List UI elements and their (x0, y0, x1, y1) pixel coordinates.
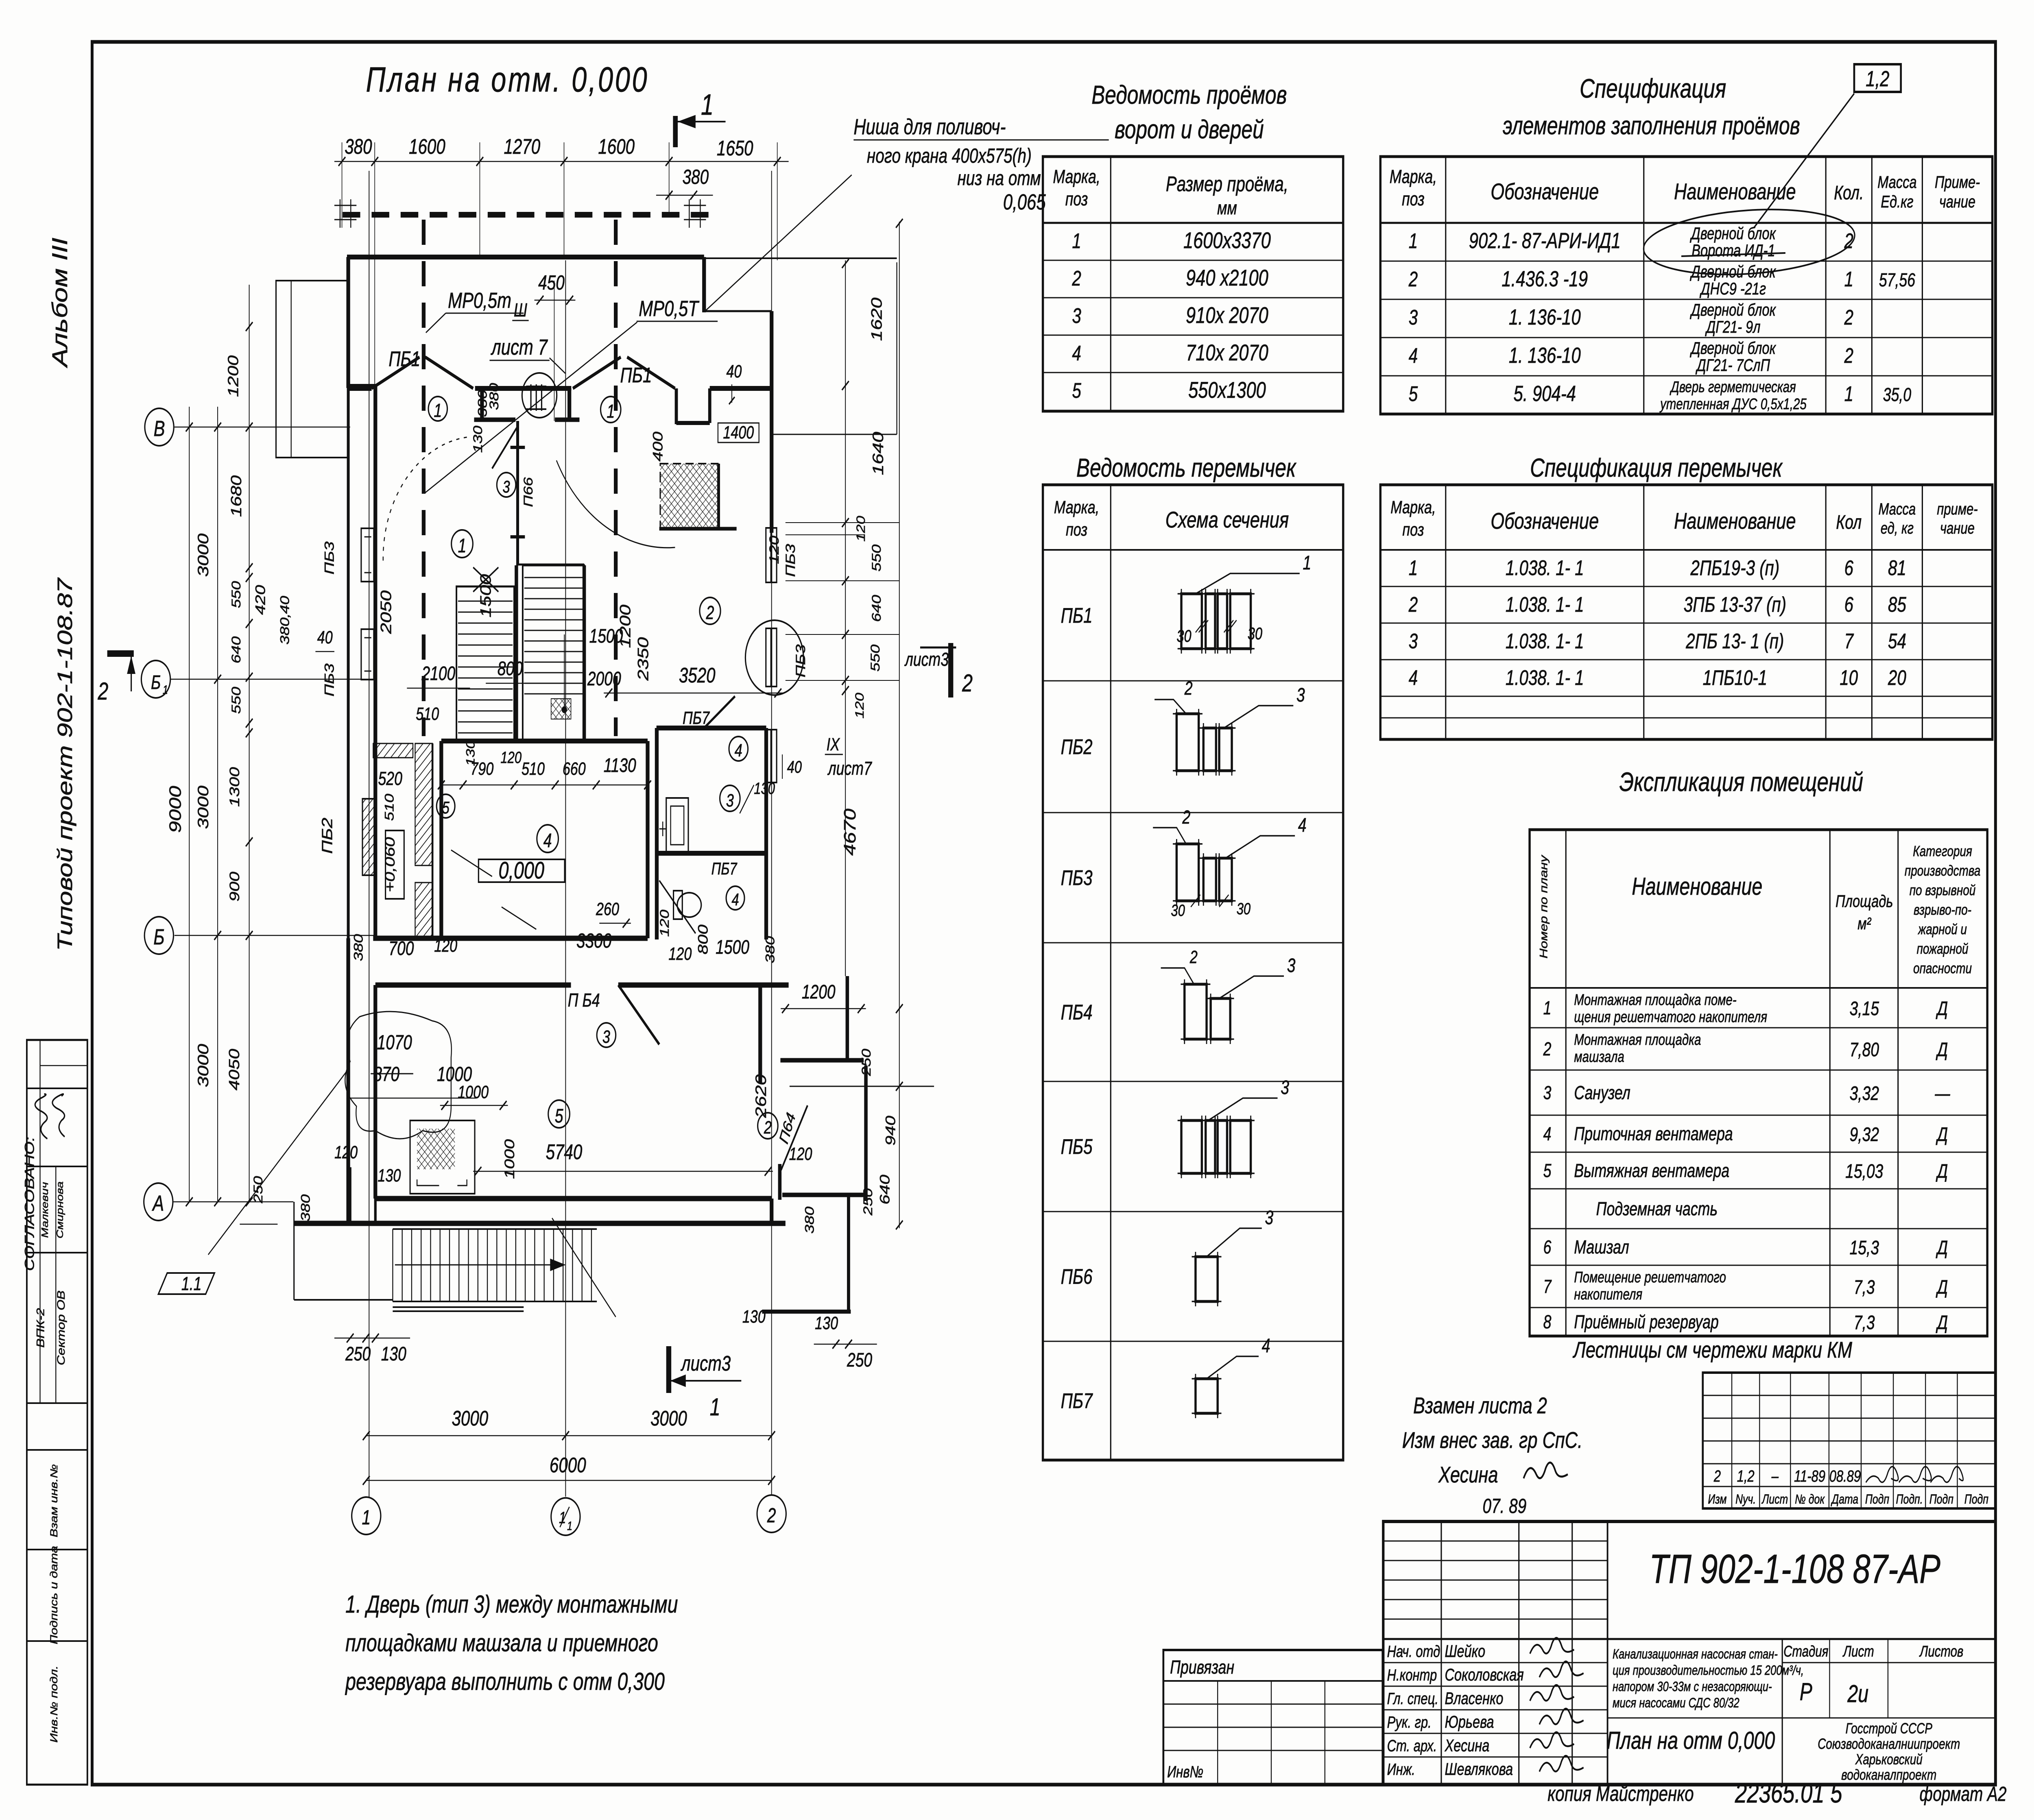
svg-text:Дверной блок: Дверной блок (1689, 338, 1776, 357)
pantry hatched wall vertical (415, 743, 432, 865)
axis Б1 circle (141, 660, 170, 698)
svg-text:МР0,5Т: МР0,5Т (639, 296, 700, 321)
svg-text:3: 3 (1281, 1077, 1289, 1099)
svg-text:380: 380 (299, 1194, 313, 1222)
window ПБ2 left wall (362, 799, 374, 875)
svg-text:2: 2 (98, 678, 109, 705)
svg-text:Марка,: Марка, (1053, 166, 1100, 187)
svg-text:5: 5 (442, 798, 450, 817)
gate wall segment left (348, 386, 371, 391)
svg-text:5: 5 (555, 1105, 563, 1127)
svg-text:лист7: лист7 (827, 758, 873, 779)
outer wall left main (373, 386, 378, 938)
svg-text:лист3: лист3 (904, 649, 949, 670)
svg-text:Альбом III: Альбом III (48, 238, 72, 368)
svg-text:2ПБ 13- 1 (п): 2ПБ 13- 1 (п) (1685, 629, 1784, 653)
svg-text:40: 40 (787, 757, 802, 776)
svg-text:Типовой проект 902-1-108.8: Типовой проект 902-1-108.87 (53, 577, 76, 951)
lintel schema ПБ4 (1185, 984, 1207, 1039)
lintel schema ПБ6 (1196, 1257, 1218, 1301)
svg-text:В: В (154, 416, 165, 441)
column mark left (339, 199, 340, 228)
svg-text:3: 3 (503, 477, 510, 496)
svg-text:поз: поз (1402, 189, 1425, 209)
svg-text:57,56: 57,56 (1879, 270, 1915, 290)
basin (666, 798, 688, 853)
svg-text:1.038. 1- 1: 1.038. 1- 1 (1506, 666, 1584, 689)
section mark 2 left (107, 650, 134, 657)
svg-text:по взрывной: по взрывной (1910, 882, 1976, 898)
svg-text:130: 130 (464, 740, 477, 766)
svg-text:приме-: приме- (1937, 500, 1977, 518)
svg-text:Госстрой СССР: Госстрой СССР (1846, 1720, 1933, 1737)
svg-text:Д: Д (1936, 1237, 1948, 1259)
svg-text:1620: 1620 (868, 297, 885, 341)
svg-text:250: 250 (859, 1049, 873, 1077)
svg-text:1: 1 (1543, 998, 1552, 1018)
exit threshold thin (790, 1086, 934, 1087)
svg-text:1: 1 (710, 1393, 720, 1421)
svg-text:2и: 2и (1847, 1680, 1869, 1707)
axis circle 1/1 (551, 1498, 580, 1535)
svg-text:120: 120 (854, 516, 868, 541)
svg-text:Размер проёма,: Размер проёма, (1166, 172, 1288, 196)
svg-text:взрыво-по-: взрыво-по- (1914, 902, 1971, 918)
svg-text:7: 7 (1844, 629, 1854, 653)
outer wall upper-right vertical (702, 257, 707, 312)
svg-text:Малкевич: Малкевич (39, 1182, 50, 1238)
svg-text:1: 1 (434, 400, 442, 421)
svg-text:1130: 1130 (604, 755, 636, 777)
svg-text:1: 1 (1303, 552, 1312, 574)
gate leaf left-1 (371, 357, 419, 388)
svg-text:1: 1 (701, 88, 714, 121)
svg-text:22365.01 5: 22365.01 5 (1735, 1778, 1842, 1809)
svg-text:Подп: Подп (1929, 1492, 1953, 1507)
svg-text:Наименование: Наименование (1674, 179, 1796, 205)
svg-text:ПБ3: ПБ3 (1061, 866, 1093, 889)
revision table grid (1703, 1373, 1996, 1508)
svg-text:2: 2 (1844, 305, 1853, 329)
circled 5 pantry (436, 794, 455, 818)
niche 1400 rect (718, 423, 759, 442)
svg-text:чание: чание (1939, 192, 1975, 211)
svg-text:510: 510 (522, 759, 545, 779)
column mark right (689, 199, 690, 228)
svg-text:Листов: Листов (1919, 1643, 1963, 1660)
svg-text:Дверной блок: Дверной блок (1689, 262, 1776, 281)
svg-text:4: 4 (1072, 341, 1081, 365)
svg-text:Санузел: Санузел (1574, 1082, 1630, 1103)
circled 5 room5 (548, 1100, 570, 1128)
stair treads right (524, 577, 583, 578)
svg-text:План на отм 0,000: План на отм 0,000 (1606, 1727, 1775, 1754)
room4 bottom wall (373, 936, 648, 941)
leader to crane circle (550, 358, 565, 373)
svg-text:2: 2 (1072, 266, 1081, 290)
room 2 circled label (700, 597, 720, 624)
svg-text:Соколовская: Соколовская (1445, 1665, 1523, 1684)
svg-text:250: 250 (847, 1349, 872, 1371)
outer wall top (347, 255, 704, 259)
svg-text:Союзводоканалниипроект: Союзводоканалниипроект (1818, 1736, 1960, 1752)
svg-text:3000: 3000 (452, 1406, 489, 1430)
svg-text:1: 1 (607, 401, 615, 422)
outer wall upper-left vertical (346, 257, 351, 388)
svg-text:1200: 1200 (225, 355, 241, 397)
door opening right bottom (769, 1199, 774, 1223)
dim line under cloud (347, 1098, 476, 1099)
svg-text:Д: Д (1936, 998, 1948, 1020)
svg-text:ДГ21- 9л: ДГ21- 9л (1705, 317, 1761, 336)
svg-text:120: 120 (853, 693, 866, 718)
toilet (677, 893, 701, 917)
svg-text:1: 1 (163, 683, 168, 697)
window ПБ3 right upper (766, 528, 771, 582)
svg-text:Приме-: Приме- (1935, 172, 1980, 192)
svg-text:Изм: Изм (1708, 1492, 1726, 1507)
axis 1 vertical (369, 171, 370, 1497)
svg-text:низ на отм: низ на отм (957, 167, 1041, 190)
svg-text:660: 660 (563, 759, 586, 779)
svg-text:накопителя: накопителя (1574, 1286, 1642, 1303)
svg-text:2350: 2350 (635, 637, 652, 681)
svg-text:6: 6 (1543, 1237, 1552, 1258)
section mark 1 top (672, 116, 679, 147)
svg-text:Nуч.: Nуч. (1735, 1492, 1756, 1507)
svg-text:5740: 5740 (546, 1140, 583, 1164)
svg-text:4: 4 (1262, 1335, 1270, 1357)
svg-text:940 х2100: 940 х2100 (1186, 265, 1268, 291)
svg-text:10: 10 (1840, 666, 1858, 689)
svg-text:1. 136-10: 1. 136-10 (1509, 305, 1581, 329)
svg-text:чание: чание (1940, 519, 1975, 537)
apron bottom (294, 1299, 393, 1301)
svg-text:ВПК-2: ВПК-2 (35, 1308, 46, 1348)
svg-text:550: 550 (229, 581, 243, 608)
svg-text:ед, кг: ед, кг (1881, 519, 1914, 537)
svg-text:жарной и: жарной и (1917, 921, 1967, 937)
svg-text:утепленная ДУС 0,5х1,25: утепленная ДУС 0,5х1,25 (1659, 395, 1807, 412)
svg-text:5. 904-4: 5. 904-4 (1514, 381, 1576, 406)
axis А circle (144, 1183, 173, 1221)
svg-text:ного крана 400х575(h): ного крана 400х575(h) (867, 145, 1032, 167)
svg-text:1. 136-10: 1. 136-10 (1509, 343, 1581, 368)
svg-text:Д: Д (1936, 1161, 1948, 1183)
svg-text:Приёмный резервуар: Приёмный резервуар (1574, 1312, 1718, 1332)
svg-text:ПБ3: ПБ3 (322, 541, 336, 574)
svg-text:0,000: 0,000 (499, 857, 545, 883)
table Спецификация перемычек grid (1380, 485, 1992, 739)
left dim chain inner (249, 285, 250, 1202)
lintel schema ПБ2 (1176, 714, 1198, 771)
svg-text:3: 3 (1296, 684, 1305, 706)
axis 2 vertical (771, 171, 772, 1495)
svg-text:1500: 1500 (716, 937, 749, 959)
axis В circle (145, 408, 174, 446)
lintel schema ПБ1 (1181, 594, 1202, 649)
pantry inner wall (431, 743, 434, 937)
svg-text:формат А2: формат А2 (1920, 1783, 2007, 1805)
svg-text:1000: 1000 (437, 1063, 472, 1085)
svg-text:1650: 1650 (717, 136, 753, 160)
svg-text:Взамен листа 2: Взамен листа 2 (1413, 1393, 1547, 1419)
exit pit wall vertical (847, 1196, 851, 1312)
svg-text:3: 3 (1287, 955, 1296, 977)
svg-text:Ед.кг: Ед.кг (1881, 192, 1913, 211)
svg-text:1: 1 (1409, 556, 1418, 580)
axis room label 1 left (428, 397, 447, 421)
room5 right wall (758, 985, 763, 1083)
vestibule sill left (474, 418, 515, 422)
svg-text:3: 3 (1409, 305, 1418, 329)
extension line 450 (554, 281, 554, 421)
svg-text:Ведомость перемычек: Ведомость перемычек (1076, 453, 1296, 483)
exit stub wall left (777, 1164, 782, 1200)
svg-text:Сектор ОВ: Сектор ОВ (55, 1290, 67, 1365)
svg-text:4: 4 (543, 830, 552, 852)
svg-text:550х1300: 550х1300 (1188, 377, 1266, 403)
dim row above room4 (441, 785, 648, 786)
svg-text:ПБ7: ПБ7 (683, 708, 710, 728)
svg-text:2: 2 (767, 1504, 776, 1527)
room5 bottom wall (374, 1196, 771, 1201)
svg-text:3: 3 (1265, 1207, 1273, 1229)
svg-text:№ док: № док (1795, 1492, 1825, 1507)
svg-text:щения решетчатого накопителя: щения решетчатого накопителя (1574, 1008, 1767, 1025)
monorail beam dashed right (613, 220, 618, 736)
svg-text:1680: 1680 (228, 475, 244, 517)
svg-text:40: 40 (317, 628, 333, 647)
svg-text:2100: 2100 (421, 663, 456, 685)
svg-text:2: 2 (1184, 678, 1193, 699)
svg-text:IX: IX (827, 735, 840, 754)
door leaf ПБ7 top (704, 696, 735, 728)
svg-text:3: 3 (726, 791, 734, 811)
gate wall right segment (710, 386, 772, 391)
svg-text:—: — (1935, 1083, 1951, 1105)
svg-text:30: 30 (1237, 900, 1251, 918)
window ПБ3 upper (361, 528, 374, 582)
svg-text:380: 380 (763, 936, 777, 963)
axis room label 1 right (600, 397, 621, 423)
section mark лист3 bottom (666, 1346, 672, 1393)
svg-text:550: 550 (869, 545, 884, 572)
right dim chain outer (899, 222, 900, 1228)
terrace top thin line (704, 257, 897, 259)
svg-text:120: 120 (766, 536, 781, 564)
svg-text:30: 30 (1248, 624, 1262, 643)
svg-text:Гл. спец.: Гл. спец. (1387, 1689, 1438, 1708)
bottom dim 3000 3000 (366, 1435, 771, 1436)
svg-text:ПБ2: ПБ2 (1061, 735, 1093, 759)
level mark 0,000 (478, 859, 565, 882)
svg-text:0,065: 0,065 (1003, 190, 1046, 214)
window right double (766, 730, 771, 782)
svg-text:2: 2 (764, 1118, 772, 1138)
niche wall bottom (659, 527, 737, 531)
stair up arrow left (473, 567, 498, 592)
svg-text:1: 1 (458, 535, 467, 557)
svg-text:ПБ5: ПБ5 (1061, 1135, 1093, 1158)
svg-text:Инв№: Инв№ (1167, 1763, 1203, 1781)
axis room label 1 lower (452, 530, 473, 558)
lower outer wall (294, 1221, 786, 1226)
wall step at left (347, 384, 377, 389)
exit corridor wall upper (845, 976, 849, 1060)
svg-text:Обозначение: Обозначение (1491, 508, 1599, 534)
svg-text:1.038. 1- 1: 1.038. 1- 1 (1506, 629, 1584, 653)
svg-text:1,2: 1,2 (1737, 1467, 1755, 1485)
svg-text:Б: Б (151, 672, 161, 694)
svg-text:2050: 2050 (378, 590, 395, 634)
svg-text:420: 420 (253, 585, 268, 615)
room divider stub (514, 565, 519, 741)
wc door diagonal (659, 881, 696, 933)
svg-text:7,3: 7,3 (1854, 1312, 1875, 1334)
svg-text:3: 3 (602, 1027, 610, 1047)
svg-text:2000: 2000 (587, 668, 621, 690)
room4 left wall (439, 741, 444, 938)
window ПБ3 lower (361, 629, 374, 680)
svg-text:2620: 2620 (753, 1074, 770, 1118)
svg-text:40: 40 (726, 362, 742, 381)
svg-text:85: 85 (1888, 593, 1906, 616)
stair shaft top wall (516, 564, 584, 566)
svg-text:130: 130 (742, 1307, 766, 1327)
circled 3 door (597, 1023, 616, 1047)
door arc room1 (383, 437, 467, 565)
svg-text:130: 130 (381, 1343, 406, 1365)
dim extension lines top (342, 142, 343, 228)
svg-text:9,32: 9,32 (1850, 1124, 1879, 1146)
svg-text:400: 400 (650, 432, 666, 462)
svg-text:опасности: опасности (1913, 960, 1972, 976)
svg-text:20: 20 (1888, 666, 1906, 689)
left apron wall (293, 1202, 295, 1300)
svg-text:Наименование: Наименование (1632, 873, 1762, 900)
axis В line (175, 427, 350, 428)
svg-text:910х 2070: 910х 2070 (1186, 303, 1268, 328)
left dim chain middle 3000s (217, 407, 218, 1202)
svg-text:1000: 1000 (502, 1139, 517, 1179)
door leaf П66 (492, 428, 517, 469)
svg-text:2ПБ19-3 (п): 2ПБ19-3 (п) (1690, 556, 1780, 580)
circled 4 hall (537, 825, 559, 852)
svg-text:Нач. отд: Нач. отд (1387, 1642, 1440, 1661)
svg-text:130: 130 (471, 426, 485, 453)
svg-text:Спецификация перемычек: Спецификация перемычек (1530, 453, 1783, 483)
svg-text:Обозначение: Обозначение (1491, 179, 1599, 205)
svg-text:2: 2 (1543, 1039, 1552, 1059)
svg-text:резервуара выполнить с отм 0: резервуара выполнить с отм 0,300 (345, 1668, 665, 1695)
svg-text:+0,060: +0,060 (382, 837, 398, 892)
svg-text:120: 120 (789, 1144, 812, 1164)
exit bottom wall (782, 1193, 867, 1197)
door leaf П64 exit (781, 1105, 807, 1170)
svg-text:СОГЛАСОВАНО:: СОГЛАСОВАНО: (22, 1137, 37, 1271)
axis 1/1 vertical (565, 260, 566, 1497)
svg-text:Масса: Масса (1879, 500, 1916, 518)
svg-text:копия Майстренко: копия Майстренко (1547, 1782, 1694, 1805)
svg-text:450: 450 (538, 272, 565, 294)
axis Б1 line (170, 679, 375, 680)
svg-text:120: 120 (500, 748, 522, 767)
outer wall right upper (769, 311, 774, 525)
terrace right thin line upper (896, 262, 897, 434)
svg-text:4: 4 (731, 890, 739, 909)
svg-text:Приточная вентамера: Приточная вентамера (1574, 1123, 1733, 1144)
svg-text:510: 510 (382, 794, 397, 821)
svg-text:120: 120 (668, 944, 692, 964)
window detail circle ПБ3 right (745, 620, 803, 695)
svg-text:Площадь: Площадь (1835, 891, 1893, 911)
svg-text:Номер по плану: Номер по плану (1538, 854, 1550, 958)
svg-text:120: 120 (657, 910, 672, 937)
svg-text:Ш: Ш (514, 300, 527, 320)
svg-text:380: 380 (351, 934, 366, 961)
svg-text:ПБ3: ПБ3 (783, 544, 798, 577)
svg-text:4: 4 (1298, 815, 1307, 837)
leader line to niche (705, 175, 852, 311)
svg-text:Смирнова: Смирнова (55, 1181, 65, 1238)
svg-text:30: 30 (1171, 901, 1185, 920)
axis Б circle (144, 917, 173, 954)
circled 3 stair (497, 473, 516, 497)
svg-text:1ПБ10-1: 1ПБ10-1 (1703, 666, 1768, 689)
svg-text:2: 2 (1713, 1467, 1721, 1485)
svg-text:ПБ4: ПБ4 (1061, 1000, 1093, 1024)
left dim chain outer 9000 (189, 407, 190, 1202)
svg-text:–: – (1771, 1467, 1779, 1485)
svg-text:Д: Д (1936, 1312, 1948, 1334)
svg-text:1.038. 1- 1: 1.038. 1- 1 (1506, 556, 1584, 580)
sheet ref box 1,2 (1854, 64, 1901, 92)
svg-text:элементов заполнения проёмов: элементов заполнения проёмов (1503, 111, 1800, 139)
svg-text:А: А (152, 1191, 164, 1216)
svg-text:Ворота ИД-1: Ворота ИД-1 (1691, 241, 1775, 260)
svg-text:11-89: 11-89 (1794, 1467, 1825, 1485)
svg-text:ПБ2: ПБ2 (319, 817, 335, 854)
svg-text:3000: 3000 (650, 1406, 687, 1430)
svg-text:520: 520 (378, 768, 402, 789)
svg-text:5: 5 (1409, 382, 1418, 405)
svg-text:Хесина: Хесина (1438, 1462, 1498, 1488)
gate leaf left-2 (425, 357, 473, 388)
svg-text:2: 2 (962, 669, 973, 697)
svg-text:1. Дверь (тип 3) между монт: 1. Дверь (тип 3) между монтажными (345, 1591, 678, 1618)
svg-text:380: 380 (487, 383, 501, 410)
svg-text:6000: 6000 (550, 1453, 586, 1477)
svg-text:2: 2 (1408, 593, 1418, 616)
svg-text:3300: 3300 (576, 930, 611, 952)
svg-text:380: 380 (803, 1207, 817, 1234)
svg-text:Дверной блок: Дверной блок (1689, 224, 1776, 243)
wall corner jog right (674, 388, 679, 424)
svg-text:6: 6 (1844, 556, 1854, 580)
exit corridor wall right (864, 1066, 868, 1201)
right chain connector lines (786, 522, 899, 523)
svg-text:380: 380 (345, 135, 372, 158)
gate wall middle segment (475, 386, 572, 391)
svg-text:15,3: 15,3 (1850, 1237, 1879, 1259)
svg-text:Дверь герметическая: Дверь герметическая (1670, 378, 1796, 395)
svg-text:260: 260 (596, 899, 619, 919)
platform outline upper-left (276, 281, 349, 458)
svg-text:08.89: 08.89 (1829, 1467, 1861, 1485)
svg-text:54: 54 (1888, 629, 1906, 653)
svg-text:640: 640 (869, 595, 884, 622)
